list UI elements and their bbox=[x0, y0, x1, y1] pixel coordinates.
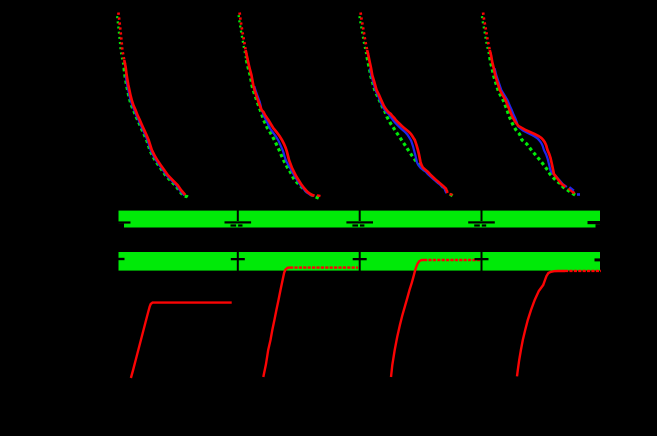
panel 4 cumulative mass curve rise (red) bbox=[517, 271, 565, 376]
abundance band row 2 (green) bbox=[119, 252, 601, 271]
panel 4 observed light curve top (red dotted) bbox=[483, 13, 491, 57]
panel 2 cumulative mass curve flat (red dashed over band) bbox=[290, 266, 358, 268]
band 1 tick mark at x=359.7 (black) bbox=[359, 209, 361, 221]
band 2 cross mark at x=481.5 (black) bbox=[481, 252, 483, 271]
panel 4 baseline light curve top (green dotted) bbox=[482, 14, 490, 58]
panel 2 cumulative mass curve rise (red) bbox=[263, 268, 290, 378]
panel 3 baseline light curve (green dashed) bbox=[367, 57, 453, 196]
panel 3 cumulative mass curve flat (red dashed over band) bbox=[424, 259, 480, 261]
band 2 right edge black notch bbox=[595, 258, 601, 261]
panel 2 observed light curve top (red dotted) bbox=[240, 13, 248, 61]
panel 4 model light curve (blue) bbox=[495, 68, 567, 187]
panel 4 cumulative mass curve flat (red dashed along band bottom) bbox=[565, 270, 601, 272]
band 1 left edge black line bbox=[119, 221, 131, 223]
panel 2 model light curve (blue) bbox=[254, 86, 313, 196]
panel 4 blue tail dot bbox=[577, 193, 580, 196]
panel 3 red tail dot bbox=[450, 193, 453, 196]
abundance band row 1 (green) bbox=[119, 211, 601, 228]
panel 1 cumulative mass curve (red) bbox=[131, 303, 232, 378]
panel 3 cumulative mass curve rise (red) bbox=[391, 260, 424, 377]
band 2 cross mark at x=359.7 (black) bbox=[359, 252, 361, 271]
band 1 left edge black dash block bbox=[119, 224, 125, 228]
panel 1 observed light curve (red) bbox=[124, 60, 185, 195]
panel 3 model light curve (blue) bbox=[370, 68, 446, 193]
panel 4 observed light curve (red) bbox=[490, 50, 566, 187]
panel 1 observed light curve top (red dotted) bbox=[118, 13, 125, 68]
band 1 tick mark at x=481.5 (black) bbox=[481, 209, 483, 221]
panel 1 baseline light curve top (green dotted) bbox=[117, 14, 124, 69]
panel 2 baseline light curve (green dashed) bbox=[246, 60, 319, 199]
band 1 tick mark at x=237.8 (black) bbox=[237, 209, 239, 221]
panel 4 blue tail dash bbox=[570, 187, 575, 191]
panel 3 observed light curve (red) bbox=[367, 50, 447, 193]
panel 3 baseline light curve top (green dotted) bbox=[359, 14, 367, 58]
panel 4 red tail dash bbox=[569, 188, 575, 193]
panel 2 red tail dot bbox=[317, 194, 321, 197]
band 2 cross mark at x=237.8 (black) bbox=[237, 252, 239, 271]
band 1 right edge black notch bbox=[588, 221, 601, 224]
panel 4 baseline light curve (green dashed) bbox=[490, 57, 576, 195]
panel 3 observed light curve top (red dotted) bbox=[361, 13, 369, 57]
panel 1 model light curve (blue) bbox=[126, 75, 185, 195]
panel 2 baseline light curve top (green dotted) bbox=[238, 13, 246, 61]
panel 1 baseline light curve (green dashed) bbox=[124, 68, 189, 198]
panel 2 observed light curve (red) bbox=[246, 50, 315, 196]
band 2 left edge black line bbox=[119, 258, 125, 260]
